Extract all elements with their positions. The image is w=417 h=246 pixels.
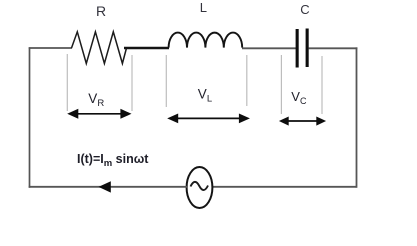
svg-text:VC: VC bbox=[291, 89, 307, 106]
V_L measurement bracket right bbox=[246, 55, 248, 106]
wire: C to top-right corner bbox=[309, 47, 358, 49]
V_C double arrow bbox=[279, 117, 326, 126]
wire: right side bbox=[356, 47, 358, 187]
wire: bottom, right of source bbox=[213, 186, 357, 188]
V_L double arrow bbox=[167, 114, 250, 124]
svg-text:L: L bbox=[200, 0, 207, 15]
wire: bottom, left of source bbox=[29, 186, 187, 188]
current direction arrow (points left) bbox=[99, 181, 111, 192]
wire: top-left segment bbox=[29, 47, 72, 49]
source sine symbol bbox=[191, 182, 209, 190]
V_C measurement bracket left bbox=[280, 55, 282, 114]
wire: R to L (thick black) bbox=[124, 47, 169, 50]
source V1 (AC) bbox=[187, 167, 213, 208]
V_R measurement bracket left bbox=[66, 54, 68, 111]
V_C measurement bracket right bbox=[321, 56, 323, 114]
wire: left side bbox=[29, 47, 31, 187]
inductor L bbox=[169, 33, 243, 48]
capacitor C plate right bbox=[306, 29, 309, 68]
V_R measurement bracket right bbox=[131, 55, 133, 111]
resistor R bbox=[72, 32, 127, 64]
svg-text:R: R bbox=[96, 3, 106, 19]
wire: L to C bbox=[242, 47, 296, 49]
V_R double arrow bbox=[67, 109, 131, 119]
capacitor C plate left bbox=[296, 29, 299, 68]
svg-text:VL: VL bbox=[198, 87, 212, 105]
svg-text:VR: VR bbox=[88, 91, 104, 109]
V_L measurement bracket left bbox=[165, 55, 167, 107]
svg-text:C: C bbox=[300, 2, 309, 17]
svg-text:I(t)=Im sinωt: I(t)=Im sinωt bbox=[77, 152, 149, 169]
